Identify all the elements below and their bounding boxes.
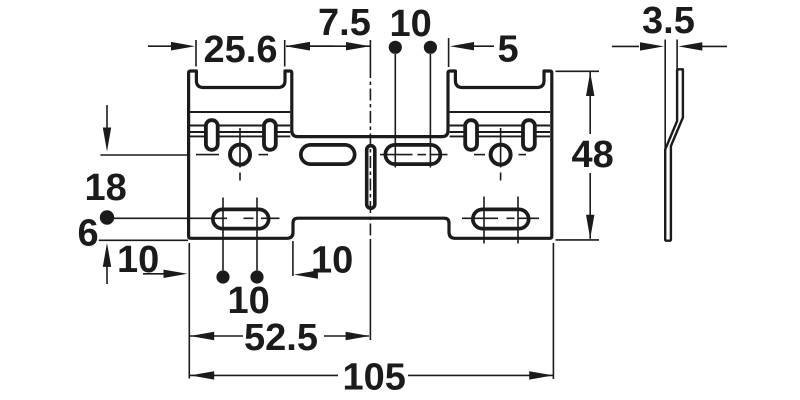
hole circle left bbox=[230, 145, 250, 165]
dimension 18 bbox=[85, 105, 189, 209]
svg-text:105: 105 bbox=[343, 357, 406, 399]
dimension 48 bbox=[556, 71, 614, 240]
svg-text:10: 10 bbox=[390, 3, 432, 45]
centerline central slot bbox=[369, 40, 371, 340]
dimension 10 bottom dots bbox=[216, 270, 269, 322]
svg-text:7.5: 7.5 bbox=[318, 2, 371, 44]
svg-text:25.6: 25.6 bbox=[204, 29, 278, 71]
dimension 10 top with dots bbox=[389, 3, 437, 54]
svg-text:10: 10 bbox=[228, 280, 270, 322]
centerlines circle right bbox=[474, 128, 526, 181]
centerlines circle left bbox=[196, 128, 268, 181]
central vertical slot bbox=[367, 146, 375, 209]
oval slot center-left bbox=[301, 145, 355, 164]
side view profile bbox=[665, 69, 683, 240]
vertical slot left block 2 bbox=[264, 120, 276, 150]
svg-text:3.5: 3.5 bbox=[642, 0, 695, 42]
leader lines top 10 dots bbox=[395, 54, 430, 168]
svg-text:6: 6 bbox=[78, 213, 99, 255]
oval slot bottom-left bbox=[213, 209, 269, 228]
svg-text:5: 5 bbox=[498, 28, 519, 70]
extension line bracket left edge bbox=[188, 243, 190, 379]
rail lines left block bbox=[190, 112, 290, 136]
bracket outline front view bbox=[189, 71, 552, 238]
extension line bracket right edge bbox=[552, 243, 554, 379]
bottom edge extension line left bbox=[99, 239, 188, 241]
dimension 25.6 bbox=[148, 29, 333, 71]
centerline oval center-right bbox=[380, 154, 448, 156]
rail lines right block bbox=[450, 112, 550, 136]
dimension 5 bbox=[449, 28, 519, 70]
oval slot bottom-right bbox=[473, 209, 529, 228]
svg-text:52.5: 52.5 bbox=[244, 317, 318, 359]
svg-text:18: 18 bbox=[85, 167, 127, 209]
dimension 10 left with up arrow bbox=[103, 239, 188, 284]
hole circle right bbox=[491, 145, 511, 165]
oval slot center-right bbox=[385, 145, 440, 164]
dimension 105 bbox=[190, 357, 553, 399]
centerlines oval bottom-right bbox=[462, 197, 539, 244]
dimension 10 middle bbox=[293, 239, 353, 281]
vertical slot left block 1 bbox=[206, 120, 218, 150]
dimension 7.5 bbox=[286, 2, 371, 51]
dimension 6 with dot leader bbox=[78, 210, 115, 254]
dimension 52.5 bbox=[190, 317, 370, 359]
svg-text:48: 48 bbox=[572, 134, 614, 176]
vertical slot right block 2 bbox=[523, 120, 535, 150]
svg-text:10: 10 bbox=[311, 239, 353, 281]
dimension 3.5 bbox=[612, 0, 727, 150]
centerlines oval bottom-left bbox=[106, 198, 279, 271]
vertical slot right block 1 bbox=[465, 120, 477, 150]
